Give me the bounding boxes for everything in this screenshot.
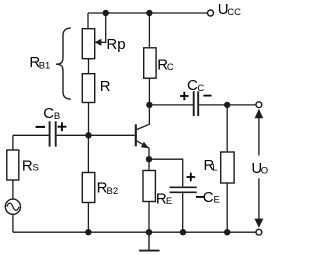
svg-text:C: C <box>203 189 214 206</box>
svg-text:R: R <box>22 157 33 174</box>
junction dot top rail RC <box>146 10 152 16</box>
capacitor CE plates <box>170 187 197 192</box>
wire RE branch <box>148 159 150 170</box>
brace RB1 <box>56 28 71 99</box>
resistor RE body <box>143 171 155 202</box>
wire CE to bottom rail <box>182 193 184 232</box>
junction dot rail RB2 <box>85 229 91 235</box>
wire RC to collector node <box>148 78 150 105</box>
ground <box>148 232 150 249</box>
transistor Q1 collector lead <box>137 105 150 130</box>
resistor R <box>82 74 94 103</box>
junction dot rail RL <box>224 229 230 235</box>
svg-text:B2: B2 <box>107 186 119 197</box>
transistor Q1 emitter arrowhead <box>141 142 149 148</box>
minus sign CE <box>196 196 204 198</box>
wire input left <box>13 134 49 136</box>
junction dot rail RE <box>146 229 152 235</box>
capacitor CC plates <box>194 91 199 116</box>
svg-text:E: E <box>214 194 220 205</box>
svg-text:CC: CC <box>227 7 241 18</box>
resistor RS body <box>7 150 19 180</box>
wire source to bottom rail <box>12 214 14 232</box>
wire RB2 to bottom rail <box>87 203 89 233</box>
resistor RL body <box>221 152 234 183</box>
svg-text:C: C <box>43 105 54 122</box>
wire emitter to CE <box>149 159 183 186</box>
resistor RC body <box>144 48 156 78</box>
plus sign CE <box>187 173 196 182</box>
svg-text:B1: B1 <box>39 61 51 72</box>
wire RL to bottom rail <box>226 183 228 232</box>
wire Rp to R <box>88 59 90 74</box>
minus sign CB <box>36 126 45 128</box>
wire CC to output terminal <box>199 104 256 106</box>
svg-text:E: E <box>166 196 172 207</box>
ground bar <box>139 250 160 252</box>
terminal UCC <box>208 10 214 16</box>
wire R to base node <box>88 103 90 136</box>
svg-text:L: L <box>212 163 217 174</box>
wire left branch down to Rp <box>87 13 89 29</box>
junction dot base node <box>85 132 91 138</box>
wire RS to source <box>12 180 14 199</box>
signal source sine <box>7 203 19 210</box>
arrowhead UO bottom <box>254 219 263 228</box>
arrowhead UO top <box>255 109 264 118</box>
transistor Q1 base bar <box>135 124 137 146</box>
wire Rp wiper from top rail <box>100 13 106 42</box>
voltage arrow UO line <box>258 115 260 221</box>
wire CB to base node <box>57 134 89 136</box>
signal source circle <box>5 199 20 214</box>
plus sign CC <box>180 92 189 101</box>
wire RC branch from rail <box>148 13 150 48</box>
svg-text:C: C <box>187 77 198 94</box>
potentiometer Rp body <box>82 29 94 59</box>
wire RL branch <box>226 105 228 152</box>
terminal output bottom <box>256 229 262 235</box>
terminal output top <box>256 102 262 108</box>
wire base <box>88 134 134 136</box>
svg-text:B: B <box>54 111 60 122</box>
wire RB2 branch <box>87 135 89 172</box>
minus sign CC <box>203 95 211 97</box>
svg-text:S: S <box>33 163 39 174</box>
junction dot collector node <box>146 102 152 108</box>
svg-text:O: O <box>261 165 268 176</box>
transistor Q1 emitter lead <box>137 141 149 159</box>
junction dot emitter node <box>146 156 152 162</box>
wire bottom rail <box>13 231 256 233</box>
plus sign CB <box>58 122 67 131</box>
resistor RB2 body <box>82 173 95 203</box>
wire top rail <box>88 12 207 14</box>
wire RE to bottom rail <box>148 202 150 233</box>
svg-text:C: C <box>167 62 174 73</box>
junction dot rail CE <box>180 229 186 235</box>
wiper arrowhead of Rp <box>95 39 102 46</box>
svg-text:R: R <box>100 78 111 95</box>
svg-text:Rp: Rp <box>106 36 125 53</box>
svg-text:C: C <box>197 83 204 94</box>
wire RS branch top <box>12 135 14 150</box>
capacitor CB plates <box>50 121 56 146</box>
junction dot top rail left <box>103 10 109 16</box>
wire collector node to CC <box>149 104 193 106</box>
junction dot output node <box>224 102 230 108</box>
